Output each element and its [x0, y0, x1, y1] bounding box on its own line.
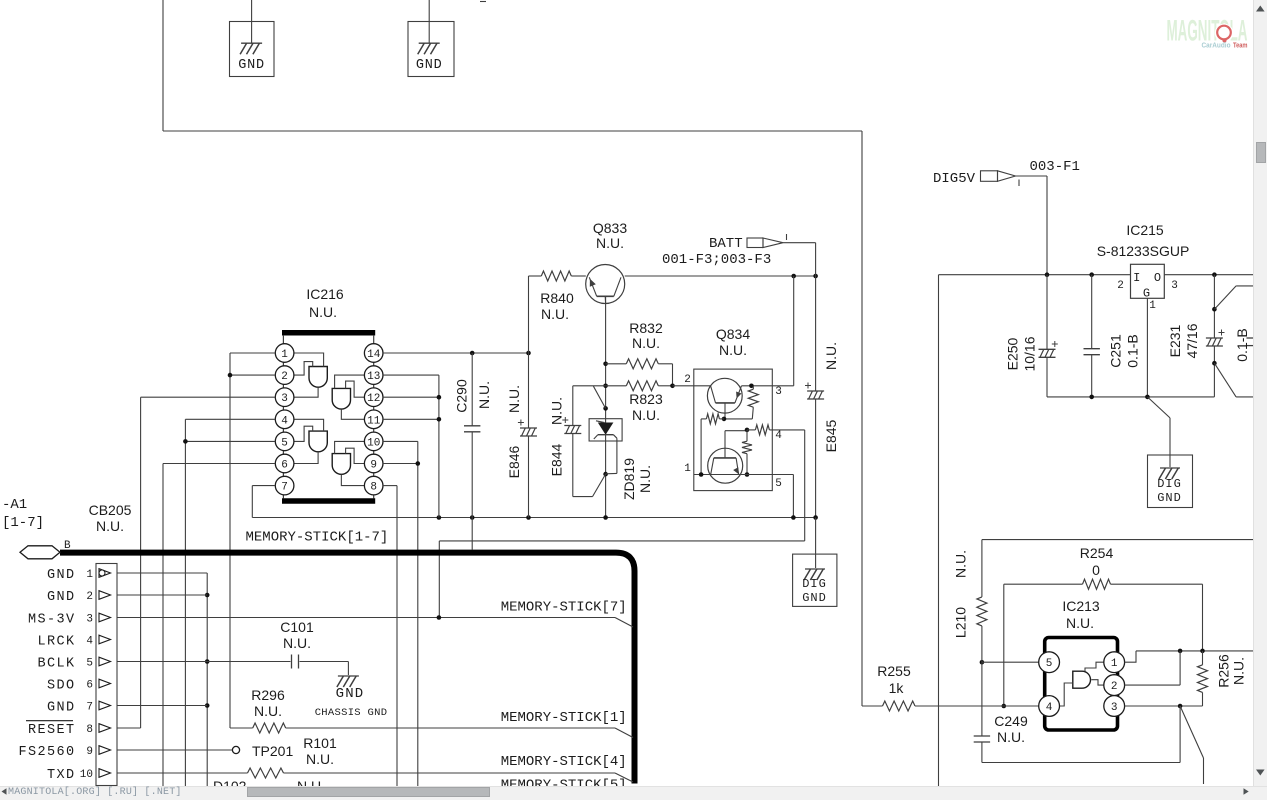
IC216 internal gate C	[294, 419, 327, 463]
wire CB205 pin5 BCLK	[117, 661, 348, 663]
svg-text:7: 7	[281, 482, 288, 494]
wire IC215 pin1	[1146, 298, 1148, 397]
wire right vertical from frame	[861, 131, 863, 706]
svg-text:R254: R254	[1080, 545, 1114, 561]
wire box top	[982, 540, 1253, 597]
svg-text:14: 14	[367, 349, 381, 361]
capacitor C101	[280, 619, 314, 669]
svg-text:L210: L210	[953, 607, 969, 638]
wire net pin1-2 vertical	[228, 353, 233, 728]
wire net GND vertical	[205, 573, 210, 788]
wire IC213 pin5	[982, 661, 1039, 663]
svg-text:CHASSIS GND: CHASSIS GND	[315, 707, 388, 719]
node Q834 T1 base	[722, 417, 727, 422]
resistor R101	[117, 735, 633, 782]
svg-text:4: 4	[281, 415, 288, 427]
svg-text:3: 3	[86, 614, 93, 626]
IC216 internal gate B	[332, 375, 364, 419]
svg-text:N.U.: N.U.	[953, 550, 969, 578]
svg-text:C251: C251	[1108, 334, 1124, 368]
svg-text:GND: GND	[802, 591, 827, 605]
wire IC216 pin14	[383, 351, 531, 356]
svg-text:C249: C249	[994, 713, 1028, 729]
wire ground rail	[252, 517, 815, 519]
svg-text:9: 9	[370, 460, 377, 472]
svg-text:O: O	[1154, 271, 1161, 285]
wire IC216 pin2	[230, 374, 275, 376]
wire Q834 pin3	[742, 276, 794, 388]
wire IC216 pin4	[185, 418, 275, 420]
svg-text:TXD: TXD	[47, 768, 76, 783]
resistor Q834 Rb	[701, 414, 724, 475]
svg-text:E231: E231	[1167, 324, 1183, 357]
ground DIG GND right	[1147, 397, 1192, 508]
inductor L210	[953, 550, 987, 638]
svg-text:Team: Team	[1233, 43, 1248, 50]
node rail junctions	[437, 515, 818, 520]
svg-text:10: 10	[367, 437, 380, 449]
svg-text:0.1-B: 0.1-B	[1125, 334, 1141, 367]
svg-text:B: B	[64, 540, 71, 552]
svg-text:MS-3V: MS-3V	[28, 613, 76, 628]
IC213 pins	[1039, 652, 1125, 717]
scrollbar left arrow	[2, 788, 7, 795]
svg-text:MEMORY-STICK[1-7]: MEMORY-STICK[1-7]	[246, 530, 389, 546]
capacitor E846	[506, 276, 537, 518]
svg-text:Q834: Q834	[716, 326, 750, 342]
svg-text:C101: C101	[280, 619, 314, 635]
svg-text:R255: R255	[877, 663, 911, 679]
label -A1	[2, 497, 27, 513]
svg-text:N.U.: N.U.	[596, 235, 624, 251]
svg-text:N.U.: N.U.	[309, 304, 337, 320]
capacitor C251	[1084, 275, 1141, 397]
svg-text:N.U.: N.U.	[541, 306, 569, 322]
svg-text:5: 5	[1046, 658, 1053, 670]
svg-text:N.U.: N.U.	[632, 335, 660, 351]
svg-text:MEMORY-STICK[1]: MEMORY-STICK[1]	[501, 710, 627, 726]
svg-text:2: 2	[281, 371, 288, 383]
svg-text:N.U.: N.U.	[96, 518, 124, 534]
wire IC213 pin1 net	[1125, 649, 1253, 663]
wire CB205 pin7	[117, 705, 207, 707]
svg-text:R296: R296	[251, 687, 285, 703]
svg-text:4: 4	[86, 636, 93, 648]
svg-text:4: 4	[1046, 702, 1053, 714]
scrollbar up arrow	[1256, 6, 1265, 12]
capacitor 0.1-B right	[1234, 328, 1253, 361]
svg-text:13: 13	[367, 371, 380, 383]
svg-text:N.U.: N.U.	[306, 751, 334, 767]
capacitor E844	[549, 386, 606, 497]
svg-text:SDO: SDO	[47, 679, 76, 694]
wire IC216 pin9	[383, 461, 420, 466]
label MEMORY-STICK[4]	[501, 754, 627, 770]
IC U-IC216 body	[282, 286, 375, 501]
resistor R296	[230, 687, 633, 738]
wire BATT to bus	[783, 243, 816, 276]
capacitor E250	[1005, 275, 1058, 397]
node R823-Q834 junction	[670, 384, 675, 389]
vertical scrollbar	[1253, 0, 1267, 786]
svg-text:5: 5	[775, 478, 782, 490]
resistor R840	[529, 271, 586, 322]
svg-text:3: 3	[775, 386, 782, 398]
wire left vertical net	[938, 275, 940, 788]
wire L210 down	[980, 660, 985, 665]
svg-text:3: 3	[1171, 280, 1178, 292]
svg-text:N.U.: N.U.	[719, 342, 747, 358]
svg-text:N.U.: N.U.	[1066, 615, 1094, 631]
svg-text:ZD819: ZD819	[621, 458, 637, 500]
IC216 pins	[275, 344, 383, 495]
svg-text:6: 6	[86, 680, 93, 692]
wire Q833 collector to BATT node	[625, 275, 816, 277]
label MEMORY-STICK[5]	[501, 778, 627, 794]
svg-text:GND: GND	[47, 568, 76, 583]
svg-text:FS2560: FS2560	[18, 745, 75, 760]
svg-text:E250: E250	[1005, 337, 1021, 370]
svg-text:GND: GND	[47, 701, 76, 716]
wire net pin4-5 vertical	[183, 419, 188, 788]
node R254 left junction	[1002, 704, 1007, 709]
svg-text:IC216: IC216	[306, 286, 344, 302]
svg-text:S-81233SGUP: S-81233SGUP	[1097, 243, 1190, 259]
wire top-left frame	[163, 0, 862, 131]
wire CB205 pin9 FS2560	[117, 749, 232, 751]
wire CB205 pin2	[117, 594, 207, 596]
wire IC216 pin7	[252, 486, 275, 518]
IC216 internal gate D	[332, 441, 364, 485]
svg-text:003-F1: 003-F1	[1030, 159, 1080, 175]
label MEMORY-STICK[1-7]	[246, 530, 389, 546]
svg-text:8: 8	[370, 482, 377, 494]
wire Q834 T2 base	[725, 431, 747, 458]
testpoint TP201	[232, 743, 293, 759]
svg-text:LRCK: LRCK	[37, 635, 75, 650]
svg-text:GND: GND	[47, 590, 76, 605]
svg-text:1k: 1k	[889, 680, 905, 696]
svg-text:GND: GND	[336, 686, 365, 702]
svg-text:N.U.: N.U.	[823, 342, 839, 370]
wire R823 to Q834 pin2	[673, 385, 711, 387]
svg-text:N.U.: N.U.	[637, 465, 653, 493]
svg-text:E844: E844	[549, 443, 565, 476]
connector CB205 pins	[18, 568, 110, 783]
wire Q834 pin1-pin5 row	[694, 472, 794, 477]
wire IC216 pin10 net	[383, 441, 418, 788]
svg-text:2: 2	[684, 374, 691, 386]
diode ZD819	[589, 419, 653, 500]
svg-text:N.U.: N.U.	[997, 729, 1025, 745]
svg-text:DIG: DIG	[802, 577, 827, 591]
svg-text:R101: R101	[303, 735, 337, 751]
scrollbar right arrow	[1244, 788, 1249, 794]
connector bus entry B	[20, 540, 71, 559]
svg-text:IC213: IC213	[1062, 598, 1100, 614]
svg-text:1: 1	[86, 569, 93, 581]
svg-text:TP201: TP201	[252, 743, 293, 759]
wire IC213 pin3 net	[1125, 704, 1203, 709]
svg-text:0.1-B: 0.1-B	[1234, 328, 1250, 361]
svg-text:[1-7]: [1-7]	[2, 515, 44, 531]
transistor Q833	[586, 220, 628, 304]
status text	[8, 787, 182, 798]
svg-text:-A1: -A1	[2, 497, 27, 513]
svg-text:N.U.: N.U.	[632, 407, 660, 423]
wire diagonal to 0.1-B top	[1214, 286, 1253, 309]
svg-text:8: 8	[86, 724, 93, 736]
resistor R832	[606, 320, 673, 386]
wire diagonal to 0.1-B bottom	[1214, 363, 1253, 397]
wire IC216 pin5	[185, 440, 275, 442]
label D102 partial	[213, 778, 247, 794]
wire IC216 pin13 net	[383, 375, 439, 517]
svg-text:I: I	[1133, 271, 1140, 285]
transistor Q834-T1	[707, 378, 742, 419]
svg-text:12: 12	[367, 393, 380, 405]
svg-text:R832: R832	[629, 320, 663, 336]
node BATT junction dots	[791, 274, 817, 279]
wire IC216 pin6	[163, 463, 275, 465]
svg-text:1: 1	[1111, 658, 1118, 670]
svg-text:10: 10	[80, 769, 93, 781]
svg-text:11: 11	[367, 415, 381, 427]
resistor Q834 Ra	[724, 386, 758, 419]
svg-text:3: 3	[1111, 702, 1118, 714]
bus MEMORY-STICK[1-7]	[60, 553, 635, 784]
svg-text:MEMORY-STICK[7]: MEMORY-STICK[7]	[501, 600, 627, 616]
ground GND box 2	[408, 0, 454, 77]
svg-text:7: 7	[86, 702, 93, 714]
svg-text:E846: E846	[506, 445, 522, 478]
svg-text:4: 4	[775, 430, 782, 442]
svg-text:DIG5V: DIG5V	[933, 171, 976, 187]
logo MAGNITOLA	[1167, 15, 1248, 50]
svg-text:N.U.: N.U.	[476, 381, 492, 409]
svg-text:N.U.: N.U.	[1231, 657, 1247, 685]
wire IC216 pin11	[383, 417, 441, 422]
IC U-IC215	[1097, 222, 1190, 312]
svg-text:0: 0	[1092, 562, 1100, 578]
node Q834 Rc junction	[745, 428, 750, 433]
node rail dots	[1045, 272, 1217, 277]
svg-text:N.U.: N.U.	[283, 635, 311, 651]
node Q834 Rd bottom	[745, 472, 750, 477]
svg-text:R823: R823	[629, 391, 663, 407]
svg-text:N.U.: N.U.	[506, 385, 522, 413]
resistor Q834 Rc	[747, 425, 805, 435]
resistor R255	[862, 663, 1039, 711]
wire IC216 pin8 net	[383, 486, 397, 788]
resistor R256	[1198, 651, 1247, 706]
svg-text:Q833: Q833	[593, 220, 627, 236]
connector CB205 body	[89, 502, 132, 786]
svg-text:3: 3	[281, 393, 288, 405]
wire net pin3-RESET vertical	[140, 397, 142, 728]
wire IC213 pin2 net	[1125, 651, 1181, 685]
capacitor C290	[454, 353, 493, 518]
svg-text:IC215: IC215	[1126, 222, 1164, 238]
resistor R254	[1004, 545, 1203, 706]
capacitor C249	[974, 626, 1028, 763]
vertical scrollbar thumb	[1256, 142, 1267, 163]
label MEMORY-STICK[1]	[501, 710, 627, 726]
svg-text:1: 1	[281, 349, 288, 361]
status bar	[0, 786, 1267, 800]
svg-text:6: 6	[281, 460, 288, 472]
wire IC216 pin12	[383, 395, 441, 400]
svg-text:BATT: BATT	[709, 236, 743, 252]
svg-text:E845: E845	[823, 419, 839, 452]
wire IC216 pin1	[230, 352, 275, 354]
svg-text:GND: GND	[1157, 491, 1182, 505]
svg-text:CB205: CB205	[89, 502, 132, 518]
transistor Q834-T2	[708, 448, 743, 483]
label MEMORY-STICK[7]	[501, 600, 627, 616]
wire diagonal exit	[1180, 706, 1203, 784]
wire IC216 pin3	[141, 396, 276, 398]
scrollbar down arrow	[1256, 770, 1265, 776]
svg-text:G: G	[1143, 287, 1150, 301]
wire Q833 emitter vertical	[605, 296, 607, 517]
svg-text:10/16: 10/16	[1022, 336, 1038, 371]
ground CHASSIS GND	[315, 662, 388, 720]
svg-text:GND: GND	[416, 58, 443, 73]
svg-text:5: 5	[86, 658, 93, 670]
wire 5V rail	[939, 274, 1254, 276]
wire Q834 pin4 branch	[439, 430, 804, 618]
wire CB205 pin8 RESET	[117, 727, 141, 729]
IC216 internal gate A	[294, 353, 327, 397]
ground DIG GND	[793, 518, 837, 607]
ground GND box 1	[230, 0, 275, 77]
wire DIG5V to rail	[1016, 176, 1048, 275]
capacitor E231	[1167, 275, 1225, 397]
svg-text:GND: GND	[238, 58, 265, 73]
svg-text:N.U.: N.U.	[254, 703, 282, 719]
svg-text:001-F3;003-F3: 001-F3;003-F3	[662, 252, 771, 268]
horizontal scrollbar thumb	[247, 787, 490, 798]
wire Q834 pin5 down	[792, 475, 794, 518]
svg-text:BCLK: BCLK	[37, 657, 75, 672]
svg-text:2: 2	[1111, 681, 1118, 693]
node zener bottom junction	[603, 472, 608, 477]
svg-text:1: 1	[1149, 300, 1156, 312]
wire box bottom rail	[982, 706, 1180, 763]
wire top edge fragment	[480, 1, 486, 3]
svg-text:2: 2	[1117, 280, 1124, 292]
node R832 junction	[603, 362, 608, 367]
svg-text:C290: C290	[454, 379, 470, 413]
svg-text:CarAudio: CarAudio	[1202, 43, 1231, 50]
label [1-7]	[2, 515, 44, 531]
IC U-IC213 body	[1045, 598, 1118, 730]
resistor Q834 Rd	[742, 430, 752, 475]
wire CB205 pin1	[117, 572, 207, 574]
node R823 junction	[603, 384, 608, 389]
transistor array Q834	[684, 326, 782, 491]
svg-text:R256: R256	[1216, 654, 1232, 688]
svg-text:DIG: DIG	[1157, 477, 1182, 491]
connector BATT	[662, 234, 787, 268]
connector DIG5V	[933, 159, 1080, 187]
svg-text:5: 5	[281, 437, 288, 449]
svg-text:47/16: 47/16	[1184, 323, 1200, 358]
svg-text:MEMORY-STICK[4]: MEMORY-STICK[4]	[501, 754, 627, 770]
wire net pin6 vertical	[162, 464, 164, 789]
resistor R823	[606, 381, 673, 423]
svg-text:R840: R840	[540, 290, 574, 306]
node zener top junction	[603, 406, 608, 411]
label D102 NU partial	[297, 778, 325, 794]
wire rail stub to bus	[471, 518, 473, 550]
svg-text:N.U.: N.U.	[549, 397, 565, 425]
wire MS-3V / MEMORY-STICK[7]	[117, 615, 633, 627]
svg-text:1: 1	[684, 463, 691, 475]
IC213 internal gate	[1060, 662, 1104, 706]
svg-text:2: 2	[86, 591, 93, 603]
capacitor E845	[805, 276, 839, 518]
svg-text:RESET: RESET	[28, 723, 76, 738]
wire IC215 gnd rail	[1047, 395, 1214, 400]
svg-text:9: 9	[86, 746, 93, 758]
